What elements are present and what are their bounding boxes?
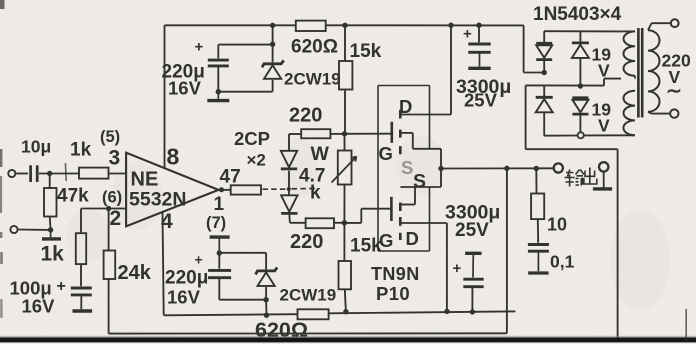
svg-text:+: + xyxy=(463,26,472,43)
capacitor 10u input xyxy=(29,165,32,182)
svg-text:220μ: 220μ xyxy=(165,268,208,289)
resistor 15k upper xyxy=(344,25,346,61)
wire gate upper xyxy=(345,133,391,135)
wire output pin1 xyxy=(219,189,231,191)
dashed wire node to pot xyxy=(292,187,319,189)
capacitor 0,1 xyxy=(528,243,549,246)
ground lower supply xyxy=(210,235,230,238)
svg-text:24k: 24k xyxy=(118,262,152,284)
input terminal 1 xyxy=(8,170,15,177)
ground upper supply xyxy=(217,92,219,100)
resistor 220 upper xyxy=(289,133,301,135)
diode 1N5403 D1 xyxy=(536,43,552,59)
wire pin4 down xyxy=(163,213,164,316)
diode 1N5403 D3 xyxy=(536,97,553,112)
svg-text:220: 220 xyxy=(289,105,322,127)
svg-text:16V: 16V xyxy=(167,287,201,308)
stray mark xyxy=(64,163,67,181)
svg-text:47: 47 xyxy=(220,167,241,188)
svg-text:k: k xyxy=(310,183,321,204)
svg-text:+: + xyxy=(453,260,462,277)
wire top +rail xyxy=(165,24,296,26)
svg-text:25V: 25V xyxy=(455,220,489,241)
svg-text:10μ: 10μ xyxy=(21,137,51,157)
resistor 220 lower xyxy=(306,218,334,228)
wire pin8 supply xyxy=(164,25,166,168)
svg-text:16V: 16V xyxy=(168,78,202,99)
svg-text:+: + xyxy=(195,39,204,56)
svg-text:(7): (7) xyxy=(206,214,226,232)
MOSFET enclosure box xyxy=(378,85,430,87)
svg-text:1: 1 xyxy=(214,194,225,215)
svg-text:(6): (6) xyxy=(102,189,122,207)
capacitor C 220u/16V upper xyxy=(208,59,229,62)
scan border bottom xyxy=(0,337,696,342)
wire diode column top xyxy=(288,134,290,151)
wire gate lower stepped xyxy=(344,222,361,224)
wire between 2CP diodes xyxy=(288,171,290,196)
node top rail / zener branch xyxy=(270,23,275,28)
resistor 15k lower xyxy=(343,223,345,261)
svg-text:V: V xyxy=(598,61,610,81)
wire 2CP lower to 220 xyxy=(288,214,291,223)
wire bridge top rail xyxy=(544,30,620,32)
svg-text:5532N: 5532N xyxy=(129,189,186,211)
capacitor 3300u/25V upper xyxy=(478,25,480,42)
wire lower supply bottom link xyxy=(219,299,266,301)
wire input node xyxy=(39,173,79,175)
svg-text:NE: NE xyxy=(131,169,159,191)
svg-text:2CW19: 2CW19 xyxy=(284,70,341,89)
capacitor 100u/16V xyxy=(71,287,92,290)
node 15k top xyxy=(342,23,347,28)
diode D3 bottom-left xyxy=(543,85,545,97)
diode 2CP upper xyxy=(281,151,297,169)
node bridge +out xyxy=(542,70,547,75)
potentiometer W 4.7k xyxy=(344,134,346,151)
node ring bridge xyxy=(578,132,584,138)
svg-text:10: 10 xyxy=(547,215,567,235)
terminal primary bottom xyxy=(670,109,678,117)
wire outer loop xyxy=(525,85,527,149)
zener 2CW19 upper xyxy=(262,60,284,79)
svg-text:S: S xyxy=(401,157,413,178)
svg-text:V: V xyxy=(598,116,610,136)
wire drain upper FET xyxy=(450,25,452,114)
svg-text:1k: 1k xyxy=(41,243,65,266)
wire bridge common / centre tap xyxy=(526,84,604,86)
resistor 620ohm lower xyxy=(298,309,329,319)
node gate lower xyxy=(342,220,347,225)
node 3300u top xyxy=(476,23,481,28)
svg-text:(5): (5) xyxy=(100,128,120,146)
transformer T1 secondary xyxy=(621,30,635,32)
capacitor 220u/16V lower xyxy=(218,253,220,269)
zener diode 2CW19 lower xyxy=(265,253,267,270)
resistor 620ohm upper xyxy=(296,21,326,31)
label 输出 (drawn) xyxy=(565,168,597,187)
ground input xyxy=(50,230,52,237)
resistor 24k xyxy=(108,209,110,251)
node gate upper xyxy=(342,131,347,136)
svg-text:1N5403×4: 1N5403×4 xyxy=(533,4,622,25)
wire to pin3 xyxy=(109,173,127,175)
svg-text:+: + xyxy=(57,278,66,295)
svg-text:1k: 1k xyxy=(70,140,92,161)
transformer core xyxy=(637,28,640,118)
output terminal xyxy=(554,163,563,172)
svg-text:220: 220 xyxy=(290,231,323,253)
op-amp U NE5532N xyxy=(126,153,218,227)
wire feedback bottom xyxy=(109,332,507,334)
capacitor 3300u/25V lower xyxy=(470,309,475,314)
svg-text:G: G xyxy=(379,143,393,164)
wire -rail bottom xyxy=(164,314,298,315)
node D-wire top xyxy=(448,23,453,28)
svg-text:2CP: 2CP xyxy=(234,128,270,149)
dashed wire pin1 to diode node xyxy=(263,188,288,190)
wire bridge bottom rail xyxy=(544,135,577,137)
transistor Q upper MOSFET xyxy=(390,122,393,143)
resistor 47 xyxy=(231,185,261,194)
svg-text:2CW19: 2CW19 xyxy=(280,286,337,305)
transistor Q lower MOSFET xyxy=(390,197,393,221)
output ground terminal xyxy=(599,162,608,171)
terminal primary top xyxy=(671,19,679,27)
node drain lower rail xyxy=(444,309,449,314)
zener 2CW19 lower xyxy=(256,267,278,286)
svg-text:D: D xyxy=(406,228,419,249)
node dash junction xyxy=(287,187,291,191)
resistor 10 xyxy=(535,169,537,194)
svg-text:25V: 25V xyxy=(464,90,498,111)
wire source to output xyxy=(441,167,554,169)
svg-text:3: 3 xyxy=(109,147,121,170)
node source junction xyxy=(440,149,442,187)
svg-text:∼: ∼ xyxy=(666,81,682,102)
wire +rail corner down to bridge xyxy=(523,25,525,72)
diode 2CP lower xyxy=(281,195,297,213)
diode D2 top-right xyxy=(579,31,581,43)
svg-text:2: 2 xyxy=(110,207,122,230)
resistor 1k feedback-shunt xyxy=(80,209,82,234)
svg-text:15k: 15k xyxy=(350,41,382,62)
node 15k lower rail xyxy=(343,309,348,314)
diode D1 top-left xyxy=(543,31,545,43)
wire zener column upper xyxy=(272,25,274,62)
svg-text:P10: P10 xyxy=(376,283,410,304)
svg-text:+: + xyxy=(195,252,203,268)
svg-text:8: 8 xyxy=(167,144,180,170)
wire cap 220u upper bottom link xyxy=(217,67,219,92)
svg-text:0,1: 0,1 xyxy=(550,252,575,272)
diode 1N5403 D2 xyxy=(572,43,589,58)
diode 1N5403 D4 xyxy=(572,98,588,114)
svg-text:W: W xyxy=(311,143,330,165)
wire cap 220u upper top link xyxy=(218,44,272,46)
wire feedback vertical xyxy=(506,168,508,333)
scan edge right verticals xyxy=(685,309,687,341)
resistor 1k input xyxy=(79,168,109,179)
wire pin2 xyxy=(81,208,126,210)
svg-text:620Ω: 620Ω xyxy=(291,37,338,58)
svg-text:16V: 16V xyxy=(22,296,56,317)
svg-text:D: D xyxy=(399,96,412,117)
input terminal 2 xyxy=(10,226,17,233)
svg-text:G: G xyxy=(379,230,393,251)
scan edge left marks xyxy=(0,0,5,9)
svg-text:×2: ×2 xyxy=(247,151,266,170)
svg-text:47k: 47k xyxy=(57,186,89,207)
wire lower supply top link xyxy=(219,252,266,254)
transformer T1 primary xyxy=(648,30,660,112)
svg-text:TN9N: TN9N xyxy=(371,264,420,284)
resistor 47k xyxy=(49,174,51,189)
